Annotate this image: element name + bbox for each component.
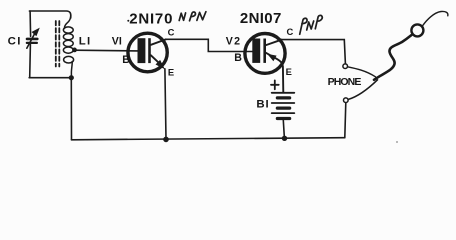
svg-text:2NI70: 2NI70 [129,10,173,27]
svg-text:PHONE: PHONE [328,76,362,88]
svg-text:VI: VI [112,35,122,47]
svg-text:E: E [286,66,292,77]
svg-text:V2: V2 [226,35,242,47]
svg-text:E: E [168,67,174,78]
svg-text:2NI07: 2NI07 [240,10,282,27]
svg-text:C: C [287,26,294,37]
svg-text:LI: LI [79,35,92,47]
svg-text:BI: BI [256,99,269,111]
svg-text:B: B [122,54,130,66]
svg-text:CI: CI [8,35,22,47]
svg-text:C: C [168,26,175,37]
svg-text:B: B [234,52,242,64]
